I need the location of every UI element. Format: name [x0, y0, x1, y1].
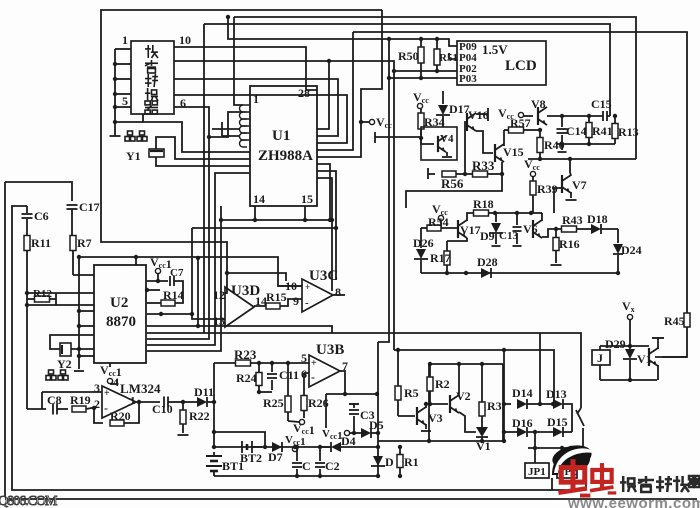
svg-text:R18: R18 [473, 197, 494, 211]
svg-text:D11: D11 [194, 385, 214, 399]
wire JP row [528, 446, 583, 450]
svg-text:D16: D16 [512, 416, 533, 430]
svg-text:C14: C14 [566, 124, 587, 138]
svg-text:D9: D9 [480, 229, 495, 243]
wire J bottom row [600, 379, 657, 381]
watermark QQ806 [0, 494, 58, 508]
svg-text:R50: R50 [398, 49, 419, 63]
svg-text:R13: R13 [618, 125, 639, 139]
resistor R5 [395, 350, 419, 416]
wire x326 [325, 394, 327, 428]
wire pin line y62 [174, 61, 329, 129]
U1 label [258, 128, 313, 164]
transistor V2 [450, 389, 471, 413]
wire D14 row [504, 403, 511, 405]
wire x79 vertical [74, 255, 84, 371]
svg-text:R1: R1 [404, 455, 419, 469]
U1 right pin y171 [317, 171, 338, 280]
svg-text:5: 5 [122, 94, 128, 108]
resistor R57 [504, 116, 538, 133]
Vcc tap left [359, 115, 392, 130]
U1 left pin hooks [240, 105, 251, 147]
wire pin line y95 [174, 95, 347, 143]
svg-text:JP1: JP1 [528, 466, 546, 478]
wire LM324 pin3 [42, 391, 102, 393]
wire V4 box left terminal [375, 132, 421, 143]
watermark url [567, 495, 700, 508]
JP1 box [525, 463, 549, 478]
transistor V16 [467, 108, 489, 131]
svg-text:V1: V1 [637, 352, 652, 366]
svg-text:www.eeworm.com: www.eeworm.com [567, 495, 700, 508]
wire block bottom y144 [556, 142, 615, 146]
wire x389 vertical [378, 37, 391, 342]
wire U2 top feed [134, 255, 138, 265]
capacitor C14 [557, 116, 587, 144]
wire bus y350 [394, 348, 554, 404]
U2 box [94, 265, 146, 363]
svg-text:R24: R24 [236, 371, 257, 385]
wire pin stub a [113, 49, 131, 66]
svg-text:C13: C13 [499, 230, 518, 242]
resistor R15 [254, 290, 302, 309]
diode D29 zener [605, 337, 637, 382]
capacitor C17 [67, 200, 100, 236]
wire V16 collector [476, 108, 488, 121]
wire D5 row [350, 432, 361, 434]
wire U2 pin y281 [147, 280, 168, 282]
wire U2 pin y356 [77, 354, 94, 358]
Vcc1 D4 [322, 428, 350, 442]
resistor R20 loop [94, 402, 139, 426]
battery BT2 [240, 441, 262, 465]
wire y441 row [378, 439, 504, 443]
resistor R1 [397, 445, 419, 478]
svg-text:V8: V8 [531, 97, 546, 111]
wire P02 line [392, 69, 457, 73]
svg-text:R3: R3 [487, 399, 502, 413]
wire C14 r40 join [558, 144, 567, 152]
V2 box top [429, 363, 503, 365]
capacitor C6 [22, 206, 49, 236]
watermark site text [620, 476, 700, 492]
wire U2 y335 Y2 [50, 335, 94, 349]
capacitor C1 [292, 447, 311, 478]
resistor R13 [612, 114, 639, 144]
wire R34 V4 base [419, 136, 434, 144]
wire LM324 pin4 [110, 380, 117, 384]
wire V17 collector [467, 213, 473, 221]
wire box right [502, 364, 504, 441]
wire R25 top [286, 361, 290, 392]
crystal Y1 [125, 131, 164, 163]
U1 pin14 label [253, 192, 265, 206]
U1 right pin y164 [317, 164, 332, 222]
battery BT1 [206, 452, 244, 476]
svg-text:-: - [104, 401, 108, 415]
U1 box [250, 86, 317, 206]
svg-text:6: 6 [301, 367, 307, 381]
svg-text:D14: D14 [512, 386, 533, 400]
resistor R24 [236, 363, 262, 394]
resistor R22 [178, 402, 210, 435]
resistor R7 [70, 236, 94, 276]
svg-text:C17: C17 [79, 200, 100, 214]
switch lever [576, 408, 585, 450]
resistor R39 [530, 181, 558, 213]
diode Dz zener [371, 455, 394, 469]
wire V11 collector [652, 338, 664, 349]
wire R56 terminal [428, 168, 435, 179]
resistor R17 [430, 241, 451, 273]
wire V3 collector [424, 402, 448, 408]
watermark beetle blob [550, 442, 594, 475]
bottom border line [5, 498, 697, 500]
svg-text:9: 9 [293, 294, 299, 308]
svg-text:V16: V16 [468, 108, 489, 122]
wire U3C out [333, 294, 345, 296]
diode D18 [587, 212, 618, 234]
resistor R19 [70, 393, 97, 412]
wire block bottom y159 [528, 157, 636, 161]
wire V17 emitter [447, 238, 467, 241]
wire pin10 line [174, 47, 317, 90]
wire U3B pin6 [304, 372, 309, 374]
left loop top [5, 182, 72, 201]
op-amp U3B [301, 342, 348, 387]
border segment x586 [585, 448, 587, 490]
wire V2 collector [457, 362, 461, 396]
wire x378 vertical [377, 342, 379, 476]
wire U3C pin9 feed [225, 271, 286, 281]
svg-text:12: 12 [213, 288, 225, 302]
resistor R23 [214, 347, 309, 366]
wire BT bottom row [214, 474, 380, 478]
node R12 row bottom [25, 303, 94, 307]
svg-text:R54: R54 [428, 215, 449, 229]
svg-text:Q806.COM: Q806.COM [0, 494, 58, 508]
resistor R25 [263, 392, 291, 421]
capacitor C11 [259, 363, 299, 392]
svg-text:U2: U2 [110, 295, 128, 311]
svg-text:D: D [385, 455, 394, 469]
svg-text:D15: D15 [547, 415, 568, 429]
Vcc V17 [432, 202, 448, 228]
op-amp U3C [285, 268, 341, 312]
resistor R43 [554, 213, 591, 232]
wire pin6 line [147, 107, 209, 339]
diode D26 zener [413, 236, 434, 273]
wire bus y333 [147, 333, 581, 408]
wire bus y257 [79, 257, 302, 286]
svg-text:D7: D7 [268, 450, 283, 464]
svg-text:R22: R22 [189, 409, 210, 423]
capacitor C8 [47, 393, 68, 415]
diode D7 [268, 442, 283, 464]
svg-text:Y1: Y1 [126, 149, 141, 163]
diode D9 zener [480, 213, 503, 246]
capacitor C13 [499, 213, 522, 246]
wire top line y17 [234, 17, 636, 159]
LCD label [482, 42, 537, 74]
pin 6 label [180, 96, 186, 110]
svg-text:U1: U1 [272, 128, 290, 144]
resistor R11 [24, 236, 51, 410]
svg-text:5: 5 [301, 351, 307, 365]
svg-text:14: 14 [253, 192, 265, 206]
U2 label [106, 295, 136, 330]
wire U3B out [340, 371, 345, 394]
transistor V8 pnp [531, 97, 547, 125]
svg-text:U3C: U3C [309, 268, 338, 284]
svg-text:R23: R23 [234, 347, 257, 362]
svg-text:C7: C7 [170, 267, 184, 279]
diode D24 [613, 229, 642, 275]
svg-text:V3: V3 [428, 411, 443, 425]
wire V11 right [655, 356, 687, 358]
capacitor C2 [315, 447, 340, 478]
svg-text:J: J [597, 351, 603, 365]
wire V16 emitter [476, 131, 493, 153]
wire P03 line [387, 76, 457, 80]
svg-text:V7: V7 [572, 178, 587, 192]
transistor V7 [562, 159, 587, 200]
wire y122 to T [115, 121, 143, 123]
svg-text:D24: D24 [621, 243, 642, 257]
svg-text:R33: R33 [472, 158, 495, 173]
wire Y2 right [71, 348, 94, 350]
svg-text:R56: R56 [441, 176, 464, 191]
wire BT row [214, 445, 330, 449]
node V4 emitter [442, 152, 452, 157]
resistor R34 [418, 113, 445, 138]
wire pin stub d [113, 105, 131, 124]
wire x353 dropper [317, 32, 353, 150]
Vcc1 D7 [285, 434, 306, 452]
svg-text:D28: D28 [477, 255, 498, 269]
LCD box [457, 41, 546, 85]
wire pin stub b [113, 77, 131, 81]
JP2 box [557, 463, 577, 478]
wire U3C pin10 [278, 285, 302, 287]
wire x215 vertical [147, 173, 249, 345]
diode D4 [322, 434, 380, 452]
svg-text:P03: P03 [459, 73, 477, 85]
left border outer [4, 182, 6, 497]
resistor R14 [147, 288, 184, 306]
svg-text:R7: R7 [77, 236, 92, 250]
svg-text:LCD: LCD [505, 58, 537, 74]
wire U1 left stub a [212, 122, 240, 136]
svg-text:R20: R20 [110, 409, 131, 423]
wire JP1 pins [534, 432, 536, 463]
transistor V6 [523, 220, 542, 238]
svg-text:8: 8 [335, 285, 341, 299]
resistor R33 [465, 158, 504, 177]
diode D28 [477, 255, 498, 278]
wire x204 vertical [203, 24, 205, 333]
Vcc1 U2 bottom [100, 363, 122, 384]
svg-text:13: 13 [213, 314, 225, 328]
Vcc1 C7 [150, 255, 172, 283]
svg-text:C10: C10 [152, 402, 173, 416]
svg-text:R14: R14 [163, 288, 184, 302]
svg-text:R2: R2 [435, 377, 450, 391]
wire V11 emitter [657, 365, 659, 380]
svg-text:C15: C15 [591, 97, 612, 111]
thyristor V1 [476, 427, 491, 453]
diode D14 [512, 386, 540, 409]
wire x234 dropper [234, 17, 243, 105]
diode D13 [540, 387, 572, 432]
svg-text:R45: R45 [664, 314, 685, 328]
wire V3 emitter [421, 424, 431, 431]
svg-text:R41: R41 [592, 124, 613, 138]
svg-text:C11: C11 [279, 368, 299, 382]
resistor R54 [421, 215, 458, 231]
wire U2 pin y311 [77, 309, 94, 313]
capacitor C7 [170, 267, 184, 295]
svg-text:BT1: BT1 [222, 459, 244, 473]
wire x228 jog [207, 112, 243, 139]
svg-text:Y2: Y2 [57, 357, 72, 371]
resistor R41 [586, 116, 613, 144]
U1 pin15 label [301, 192, 313, 206]
transistor V4 [438, 133, 454, 152]
svg-text:D4: D4 [341, 434, 356, 448]
svg-text:8870: 8870 [106, 314, 136, 330]
wire V15 collector [503, 130, 505, 146]
wire top line y32 [353, 32, 687, 313]
resistor R26 [301, 373, 329, 418]
transistor V3 [417, 407, 443, 425]
svg-text:R17: R17 [430, 251, 451, 265]
wire box bottom tail [143, 114, 250, 152]
svg-text:V17: V17 [460, 223, 481, 237]
Vcc R39 [524, 157, 540, 181]
svg-text:V4: V4 [440, 133, 454, 145]
svg-text:-: - [311, 370, 315, 384]
svg-text:R25: R25 [263, 396, 284, 410]
svg-text:1: 1 [122, 33, 128, 47]
capacitor C10 [152, 397, 185, 417]
svg-text:28: 28 [298, 86, 310, 100]
U1 pin28 label [298, 86, 310, 100]
pin 10 label [179, 33, 191, 47]
svg-text:C8: C8 [47, 393, 62, 407]
svg-text:ZH988A: ZH988A [258, 148, 313, 164]
wire Y1 bottom [156, 157, 250, 166]
wire pin stub c [113, 92, 131, 96]
wire JP bottom [551, 478, 553, 490]
wire x192 vertical [192, 228, 225, 319]
U1 pin1 label [253, 92, 259, 106]
wire U1 pin15 drop [303, 206, 307, 222]
svg-text:V6: V6 [523, 222, 538, 236]
transistor V17 [458, 220, 481, 238]
diode D11 [183, 385, 216, 407]
svg-text:+: + [104, 388, 110, 399]
svg-text:1.5V: 1.5V [482, 42, 508, 57]
svg-text:-: - [305, 297, 309, 309]
wire C8 row [27, 392, 46, 409]
svg-text:U3B: U3B [316, 342, 344, 358]
wire U2 pin y290 [145, 288, 160, 292]
state converter box [131, 41, 174, 114]
U1 right pin y178 [317, 178, 334, 291]
wire left pins vertical [110, 49, 121, 136]
wire y273 long [421, 271, 618, 275]
svg-text:C2: C2 [325, 459, 340, 473]
svg-text:R19: R19 [70, 393, 91, 407]
svg-text:R5: R5 [404, 386, 419, 400]
resistor R45 [664, 313, 690, 328]
left border inner [12, 206, 586, 490]
wire pin line y79 [174, 79, 338, 136]
wire V8 right [547, 114, 603, 118]
resistor R40 [537, 128, 565, 159]
capacitor C3 [349, 404, 375, 435]
node R12 row top [25, 291, 94, 295]
resistor R16 [551, 229, 580, 265]
svg-text:R16: R16 [559, 237, 580, 251]
resistor R3 [479, 362, 502, 427]
Vcc R57 [498, 106, 533, 121]
wire x394 vertical [327, 59, 394, 350]
wire x504 vertical [502, 350, 506, 443]
wire LM324 out [136, 400, 160, 404]
svg-text:R43: R43 [562, 213, 583, 227]
wire V16 base drop [463, 122, 467, 176]
LCD pin labels [459, 41, 477, 85]
wire V6 emitter [542, 229, 556, 237]
svg-text:D26: D26 [413, 236, 434, 250]
svg-text:C6: C6 [34, 209, 49, 223]
wire J top [600, 344, 649, 348]
wire P04 [449, 53, 457, 59]
wire x198 vertical [147, 256, 332, 333]
wire bus y219 [147, 206, 223, 351]
svg-text:V15: V15 [503, 145, 524, 159]
resistor R2 [427, 362, 450, 406]
wire JP2 pins [562, 448, 571, 463]
wire V15 emitter loop [406, 162, 502, 208]
wire top line y24 [204, 24, 610, 116]
resistor R50 [398, 39, 424, 78]
svg-text:D13: D13 [546, 387, 567, 401]
wire y394 tap [326, 392, 379, 396]
svg-text:+: + [305, 282, 310, 292]
svg-text:C: C [302, 459, 311, 473]
svg-text:15: 15 [301, 192, 313, 206]
Vcc1 R25 [288, 419, 315, 437]
svg-text:D18: D18 [587, 212, 608, 226]
svg-text:R15: R15 [266, 290, 287, 304]
wire x214 vertical [212, 363, 216, 449]
watermark bug1 [558, 459, 590, 495]
capacitor C15 [591, 97, 612, 121]
diode D15 [547, 415, 572, 437]
svg-text:LM324: LM324 [120, 381, 161, 396]
J box [592, 346, 610, 380]
Vcc R34 [413, 90, 429, 113]
diode D5 [361, 418, 384, 438]
wire bus y220 [221, 219, 332, 221]
wire x540 drop [538, 333, 542, 406]
resistor R12 [27, 288, 56, 305]
svg-text:R11: R11 [31, 236, 51, 250]
svg-text:D29: D29 [605, 337, 626, 351]
